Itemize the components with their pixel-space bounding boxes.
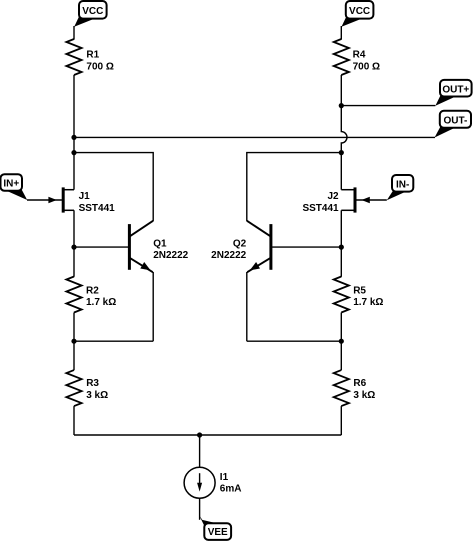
wire collector link right (to Q2 collector) — [247, 153, 341, 221]
svg-text:VCC: VCC — [82, 6, 103, 17]
wire node to R3 — [73, 341, 75, 370]
wire collector link left (to Q1 collector) — [74, 153, 153, 221]
wire Q1 base — [74, 246, 128, 248]
svg-text:SST441: SST441 — [302, 203, 339, 214]
wire J1 source to R2 — [73, 210, 75, 276]
svg-text:6mA: 6mA — [220, 484, 242, 495]
wire node to J2 drain — [340, 153, 342, 190]
wire R4 to OUT+ node — [340, 75, 342, 106]
svg-text:J1: J1 — [79, 191, 91, 202]
node: J2 source / Q2 base — [339, 245, 344, 250]
wire J2 source to R5 — [340, 210, 342, 276]
resistor R4 — [334, 39, 380, 75]
svg-text:1.7 kΩ: 1.7 kΩ — [86, 297, 116, 308]
svg-text:1.7 kΩ: 1.7 kΩ — [353, 297, 383, 308]
wire R5 to node — [340, 313, 342, 342]
wire Q2 emitter down — [246, 272, 248, 341]
wire node to J1 drain — [73, 153, 75, 190]
current source I1 — [184, 467, 241, 498]
svg-text:2N2222: 2N2222 — [153, 250, 188, 261]
node: bottom rail / I1 — [197, 432, 202, 437]
wire rail to I1 — [199, 435, 201, 467]
svg-text:R5: R5 — [353, 285, 366, 296]
wire emitter link left — [74, 340, 153, 342]
svg-text:R3: R3 — [86, 378, 99, 389]
jfet J1 — [48, 187, 115, 214]
svg-text:R4: R4 — [353, 50, 366, 61]
svg-text:VCC: VCC — [349, 6, 370, 17]
svg-text:IN-: IN- — [396, 179, 409, 190]
wire R2 to node — [73, 313, 75, 342]
svg-text:700 Ω: 700 Ω — [86, 62, 113, 73]
resistor R5 — [334, 277, 384, 313]
wire Q1 emitter down — [152, 272, 154, 341]
svg-text:I1: I1 — [220, 472, 229, 483]
resistor R2 — [66, 277, 116, 313]
resistor R3 — [66, 370, 108, 406]
svg-text:R1: R1 — [86, 50, 99, 61]
node: right collector link junction — [339, 150, 344, 155]
svg-text:OUT-: OUT- — [443, 116, 467, 127]
node: left collector link junction — [71, 150, 76, 155]
net flag VCC (right) — [342, 1, 374, 27]
wire bottom rail — [74, 434, 341, 436]
svg-text:IN+: IN+ — [3, 179, 19, 190]
svg-text:2N2222: 2N2222 — [211, 250, 246, 261]
net flag VCC (left) — [74, 1, 106, 27]
wire OUT- rail (long horizontal) — [74, 136, 435, 138]
wire node to R6 — [340, 341, 342, 370]
jfet J2 — [302, 187, 369, 214]
wire I1 to VEE — [199, 498, 201, 520]
svg-text:VEE: VEE — [208, 527, 228, 538]
transistor Q2 — [211, 221, 271, 273]
wire between junctions (left column) — [73, 137, 75, 152]
svg-text:R2: R2 — [86, 285, 99, 296]
node: J1 source / Q1 base — [71, 245, 76, 250]
net flag OUT- — [435, 111, 471, 138]
svg-text:3 kΩ: 3 kΩ — [353, 390, 375, 401]
svg-text:SST441: SST441 — [79, 203, 116, 214]
node: R2 / R3 / Q1 emitter — [71, 339, 76, 344]
node: R1 / OUT- junction — [71, 135, 76, 140]
wire right column with hop over OUT- — [341, 106, 347, 153]
resistor R1 — [66, 39, 113, 75]
wire R6 to bottom rail — [340, 406, 342, 435]
resistor R6 — [334, 370, 376, 406]
wire Q2 base — [272, 246, 341, 248]
net flag IN+ — [1, 174, 28, 200]
svg-text:Q1: Q1 — [153, 238, 167, 249]
net flag VEE — [199, 515, 231, 540]
svg-text:700 Ω: 700 Ω — [353, 62, 380, 73]
svg-text:OUT+: OUT+ — [442, 84, 469, 95]
node: R4 / OUT+ junction — [339, 103, 344, 108]
node: R5 / R6 / Q2 emitter — [339, 339, 344, 344]
wire R3 to bottom rail — [73, 406, 75, 435]
transistor Q1 — [129, 221, 188, 273]
svg-text:3 kΩ: 3 kΩ — [86, 390, 108, 401]
wire emitter link right — [247, 340, 341, 342]
svg-text:J2: J2 — [327, 191, 339, 202]
net flag OUT+ — [435, 80, 471, 106]
wire R1 to OUT- node — [73, 75, 75, 137]
wire IN- to J2 gate — [356, 199, 386, 201]
wire OUT+ — [341, 105, 435, 107]
wire IN+ to J1 gate — [27, 199, 62, 201]
net flag IN- — [387, 175, 414, 200]
wire VCC-left to R1 — [73, 26, 75, 40]
wire VCC-right to R4 — [340, 26, 342, 40]
svg-text:Q2: Q2 — [233, 238, 247, 249]
svg-text:R6: R6 — [353, 378, 366, 389]
